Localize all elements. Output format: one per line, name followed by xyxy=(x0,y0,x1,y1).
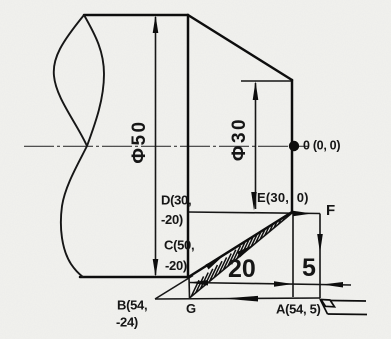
svg-text:-20): -20) xyxy=(161,212,183,227)
svg-text:-20): -20) xyxy=(165,258,187,273)
svg-text:B(54,: B(54, xyxy=(117,298,147,313)
svg-text:E(30, 0): E(30, 0) xyxy=(257,190,309,205)
svg-text:-24): -24) xyxy=(116,315,138,330)
svg-text:0 (0, 0): 0 (0, 0) xyxy=(303,139,340,153)
svg-text:C(50,: C(50, xyxy=(164,238,194,253)
svg-text:G: G xyxy=(186,301,196,316)
svg-text:20: 20 xyxy=(228,255,256,283)
svg-text:5: 5 xyxy=(302,254,316,282)
svg-text:A(54, 5): A(54, 5) xyxy=(276,302,321,317)
svg-text:Φ30: Φ30 xyxy=(229,117,250,161)
svg-text:D(30,: D(30, xyxy=(161,193,191,208)
svg-text:Φ50: Φ50 xyxy=(129,119,150,163)
svg-text:F: F xyxy=(326,202,335,219)
